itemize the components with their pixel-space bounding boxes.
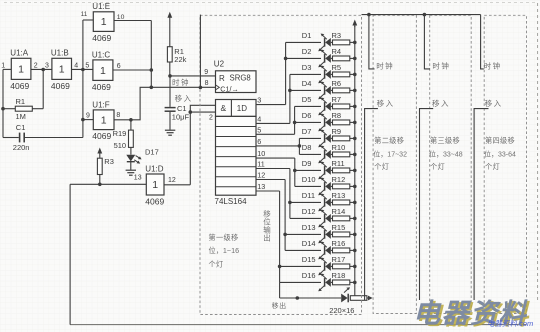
inverter U1:E: [92, 2, 114, 43]
junction D2 row: [284, 57, 288, 61]
svg-text:第一级移: 第一级移: [209, 233, 239, 242]
svg-text:U1:E: U1:E: [92, 2, 110, 11]
figure top border: [4, 2, 538, 4]
junction rail D1: [353, 41, 357, 45]
ground symbol under D17: [126, 170, 136, 175]
inverter U1:A: [10, 49, 31, 91]
wire U2 pin 3 stub: [256, 104, 286, 106]
svg-text:9: 9: [86, 113, 90, 120]
svg-text:3: 3: [257, 96, 261, 105]
watermark dianqiziliao: [413, 299, 530, 330]
wire U1:F output pin 8: [114, 119, 131, 121]
LED D9: [318, 162, 332, 180]
svg-text:11: 11: [81, 11, 88, 18]
wire C1 to ground: [169, 112, 171, 130]
wire D2 row: [286, 57, 321, 59]
wire U1:E output pin 10: [114, 20, 151, 22]
wire D6 row: [295, 121, 321, 123]
wire pair vertical for D9/D10: [294, 158, 296, 186]
resistor R18: [333, 280, 350, 285]
svg-text:个灯: 个灯: [374, 162, 389, 171]
junction F input: [81, 118, 85, 122]
svg-text:个灯: 个灯: [485, 162, 500, 171]
LED D7: [318, 130, 332, 148]
stage box 4 dashed: [484, 15, 526, 313]
junction R1 left: [1, 107, 5, 111]
svg-text:C1: C1: [16, 123, 26, 132]
svg-text:R19: R19: [113, 129, 127, 138]
wire U1:D output pin 12: [164, 184, 190, 186]
wire shift-in stage2: [365, 109, 378, 300]
svg-text:时钟: 时钟: [376, 61, 394, 71]
svg-text:R3: R3: [104, 157, 114, 166]
svg-text:8: 8: [205, 80, 209, 87]
wire U1:B output to U1:C input: [72, 68, 93, 70]
U2 AND-1D cell: [216, 100, 257, 117]
wire D14 row: [285, 249, 321, 251]
resistor R5: [333, 72, 350, 77]
resistor R12: [333, 184, 350, 189]
svg-text:D7: D7: [302, 127, 312, 136]
junction rail D14: [353, 249, 357, 253]
svg-text:6: 6: [117, 63, 121, 70]
power arrow above R1 22k: [167, 12, 172, 47]
wire clock drop stage1: [199, 15, 201, 88]
LED D17: [126, 155, 141, 164]
wire R14 to rail: [350, 217, 355, 219]
wire D5 row: [295, 105, 321, 107]
svg-text:D3: D3: [302, 63, 312, 72]
wire R4 to rail: [350, 57, 355, 59]
junction rail D11: [353, 201, 357, 205]
wire U1:A input pin 1: [3, 68, 11, 70]
wire R8 to rail: [350, 121, 355, 123]
wire R15 to rail: [350, 233, 355, 235]
resistor R8: [333, 120, 350, 125]
svg-text:第四级移: 第四级移: [485, 136, 515, 145]
LED D16: [318, 274, 332, 292]
svg-text:&: &: [221, 103, 227, 113]
wire U1:F input stub pin 9: [83, 119, 93, 121]
resistor R19: [129, 130, 134, 147]
svg-text:1M: 1M: [16, 112, 26, 121]
wire U1:E input stub pin 11: [83, 19, 93, 21]
wire shift-out row: [280, 297, 341, 299]
junction clock stage2: [367, 13, 371, 17]
junction node A-out: [41, 68, 45, 72]
LED D1: [318, 34, 332, 52]
junction C-out: [150, 68, 154, 72]
figure right border: [537, 3, 539, 302]
wire U2 pin 10 stub: [256, 157, 295, 159]
svg-text:出: 出: [263, 233, 271, 243]
junction serial-in: [189, 110, 193, 114]
svg-text:R3: R3: [332, 31, 342, 40]
wire D13 row: [285, 233, 321, 235]
wire R12 to rail: [350, 185, 355, 187]
wire serial-in to U2 pin 1: [190, 105, 215, 112]
figure bottom frame line: [70, 324, 526, 326]
svg-text:1: 1: [18, 63, 24, 75]
resistor R11: [333, 168, 350, 173]
svg-text:1: 1: [101, 16, 107, 28]
svg-text:R1: R1: [16, 97, 26, 106]
wire F-out down to R19: [130, 120, 132, 130]
svg-text:D12: D12: [302, 207, 316, 216]
wire R17 to rail: [350, 265, 355, 267]
wire E-out vertical: [150, 21, 152, 88]
wire U2 pin 12 stub: [256, 179, 285, 181]
power arrow above R3: [97, 148, 102, 159]
wire shift-in stage3: [420, 109, 434, 300]
LED D14: [318, 242, 332, 260]
svg-text:22k: 22k: [174, 55, 186, 64]
svg-text:时钟: 时钟: [484, 61, 502, 71]
wire D4 row: [290, 89, 321, 91]
wire U1:A output to U1:B input: [31, 68, 52, 70]
svg-text:R8: R8: [332, 111, 342, 120]
svg-text:10: 10: [257, 149, 265, 158]
svg-text:R18: R18: [332, 271, 346, 280]
resistor R15: [333, 232, 350, 237]
svg-text:D17: D17: [145, 148, 159, 157]
LED D4: [318, 82, 332, 100]
wire MR node down to capacitor C1 10uF: [169, 76, 171, 107]
wire C1 to B-out vertical: [25, 137, 83, 139]
svg-text:220n: 220n: [13, 143, 30, 152]
resistor R16: [333, 248, 350, 253]
junction rail D7: [353, 137, 357, 141]
wire serial-in vertical: [189, 112, 191, 185]
resistor R9: [333, 136, 350, 141]
wire R19 to D17: [130, 147, 132, 154]
svg-text:D6: D6: [302, 111, 312, 120]
stage box 1 dashed: [200, 15, 362, 314]
wire clock distribution top line: [362, 14, 481, 16]
wire R18 to rail: [350, 281, 355, 283]
svg-text:4069: 4069: [92, 82, 111, 92]
resistor R6: [333, 88, 350, 93]
LED D3: [318, 66, 332, 84]
wire shift-in stage4: [474, 109, 488, 300]
svg-text:12: 12: [257, 171, 265, 180]
svg-text:1: 1: [1, 62, 5, 69]
svg-text:D16: D16: [302, 271, 316, 280]
svg-text:第三级移: 第三级移: [430, 136, 460, 145]
svg-text:R15: R15: [332, 223, 346, 232]
svg-text:SRG8: SRG8: [230, 74, 251, 83]
svg-text:R4: R4: [332, 47, 342, 56]
wire R10 to rail: [350, 153, 355, 155]
svg-text:2: 2: [34, 62, 38, 69]
junction rail D15: [353, 265, 357, 269]
resistor R10: [333, 152, 350, 157]
inverter U1:F: [92, 100, 114, 141]
wire R7 to rail: [350, 105, 355, 107]
stage box 3 dashed: [430, 15, 472, 313]
svg-text:4069: 4069: [145, 197, 164, 207]
svg-text:R9: R9: [332, 127, 342, 136]
wire pair vertical for D13/D14: [284, 180, 286, 251]
svg-text:R12: R12: [332, 175, 346, 184]
wire D1 row: [286, 41, 321, 43]
svg-text:5: 5: [257, 125, 261, 134]
svg-text:1: 1: [101, 114, 107, 126]
wire U2 pin 4 stub: [256, 122, 290, 124]
wire D11 row: [290, 201, 321, 203]
LED D15: [318, 258, 332, 276]
svg-text:4: 4: [74, 62, 78, 69]
wire F-out jog to clock net: [131, 87, 151, 120]
resistor R4: [333, 56, 350, 61]
svg-text:C1/→: C1/→: [220, 84, 238, 93]
wire D10 row: [295, 185, 321, 187]
wire D8 row: [299, 153, 321, 155]
capacitor C1 10uF: [165, 108, 176, 112]
wire R3 to rail: [350, 41, 355, 43]
stage box 2 dashed: [373, 15, 416, 313]
svg-text:个灯: 个灯: [430, 162, 445, 171]
junction rail D16: [353, 281, 357, 285]
svg-text:13: 13: [257, 182, 265, 191]
wire U2 pin 13 stub: [256, 190, 280, 192]
junction pin 6 tee: [298, 144, 302, 148]
resistor R1 22k: [167, 47, 172, 62]
wire pair vertical for D3/D4: [289, 74, 291, 123]
junction MR node: [168, 74, 172, 78]
wire R5 to rail: [350, 73, 355, 75]
wire pair vertical for D11/D12: [289, 169, 291, 219]
shift register U2 74LS164: [204, 60, 256, 206]
svg-text:R10: R10: [332, 143, 346, 152]
junction shift-out: [296, 296, 300, 300]
wire R1 to node: [32, 108, 43, 110]
wire D3 row: [290, 73, 321, 75]
svg-text:6: 6: [257, 137, 261, 146]
inverter U1:D: [145, 164, 164, 206]
svg-text:3: 3: [45, 62, 49, 69]
svg-text:R16: R16: [332, 239, 346, 248]
wire pair vertical for D7/D8: [298, 138, 300, 154]
svg-text:D10: D10: [302, 175, 316, 184]
junction clock stage3: [423, 13, 427, 17]
svg-text:1: 1: [152, 179, 158, 191]
wire D7 row: [299, 137, 321, 139]
junction rail D12: [353, 217, 357, 221]
svg-text:2: 2: [209, 114, 213, 121]
svg-text:时钟: 时钟: [432, 61, 450, 71]
svg-text:74LS164: 74LS164: [215, 197, 248, 206]
svg-text:5: 5: [85, 62, 89, 69]
svg-text:R13: R13: [332, 191, 346, 200]
svg-text:R7: R7: [332, 95, 342, 104]
svg-text:D2: D2: [302, 47, 312, 56]
LED D12: [318, 210, 332, 228]
wire pair vertical for D1/D2: [285, 42, 287, 104]
LED D10: [318, 178, 332, 196]
wire to next stage arrow: [367, 297, 369, 299]
svg-text:移入: 移入: [377, 98, 395, 108]
svg-text:位，1~16: 位，1~16: [209, 246, 240, 255]
svg-text:时钟: 时钟: [172, 77, 190, 87]
svg-text:11: 11: [257, 160, 264, 169]
resistor R1: [15, 106, 32, 111]
svg-text:D13: D13: [302, 223, 316, 232]
wire to resistor R1: [3, 108, 15, 110]
junction D6 row: [293, 121, 297, 125]
junction D11 row: [288, 201, 292, 205]
svg-text:8: 8: [116, 112, 120, 119]
wire R1 right vertical: [42, 70, 44, 109]
svg-text:D8: D8: [302, 143, 312, 152]
svg-text:4069: 4069: [92, 131, 111, 141]
wire clock drop stage2: [369, 15, 375, 69]
inverter U1:C: [92, 50, 113, 92]
wire R1 to MR node: [169, 62, 171, 76]
wire U2 pin 11 stub: [256, 168, 290, 170]
svg-text:R5: R5: [332, 63, 342, 72]
svg-text:9: 9: [204, 69, 208, 76]
wire R9 to rail: [350, 137, 355, 139]
svg-text:R11: R11: [332, 159, 345, 168]
svg-text:U2: U2: [214, 60, 225, 69]
svg-text:U1:B: U1:B: [51, 49, 69, 58]
LED D8: [318, 146, 332, 164]
svg-text:220×16: 220×16: [329, 306, 354, 315]
junction rail D9: [353, 169, 357, 173]
junction D9 row: [293, 169, 297, 173]
wire left feedback vertical: [2, 69, 4, 137]
wire U1:C output pin 6: [113, 69, 151, 71]
junction F-out: [129, 118, 133, 122]
svg-text:U1:D: U1:D: [145, 164, 163, 173]
resistor R3: [97, 158, 102, 174]
wire U1:D input pin 13: [70, 183, 146, 185]
LED D13: [318, 226, 332, 244]
svg-text:D1: D1: [302, 31, 312, 40]
svg-text:移入: 移入: [175, 93, 193, 103]
svg-text:移入: 移入: [485, 98, 503, 108]
svg-text:第二级移: 第二级移: [374, 136, 404, 145]
junction rail D3: [353, 73, 357, 77]
svg-text:4069: 4069: [92, 33, 111, 43]
LED D2: [318, 50, 332, 68]
junction clock drop: [199, 86, 203, 90]
svg-text:移出: 移出: [272, 301, 287, 310]
U2 stage stack: [216, 116, 257, 195]
junction rail D2: [353, 57, 357, 61]
svg-text:U1:A: U1:A: [10, 49, 28, 58]
wire R11 to rail: [350, 169, 355, 171]
wire LED supply rail: [354, 26, 356, 296]
wire R3 to pin13 wire: [99, 175, 101, 185]
wire feedback loop left vertical: [69, 184, 71, 324]
svg-text:D15: D15: [302, 255, 316, 264]
svg-text:1D: 1D: [237, 104, 247, 113]
junction rail D6: [353, 121, 357, 125]
wire clock net to U2 pin 8: [151, 86, 215, 88]
resistor R3: [333, 40, 350, 45]
junction D4 row: [288, 89, 292, 93]
resistor R7: [333, 104, 350, 109]
inverter U1:B: [51, 49, 72, 91]
junction node B-out: [81, 68, 85, 72]
svg-text:4069: 4069: [10, 81, 29, 91]
wire C1 row: [3, 137, 19, 139]
wire MR node to U2 pin 9: [170, 75, 216, 77]
LED D11: [318, 194, 332, 212]
svg-text:10μF: 10μF: [172, 113, 190, 122]
svg-text:4069: 4069: [51, 81, 70, 91]
svg-text:位，33~48: 位，33~48: [429, 150, 463, 159]
resistor R13: [333, 200, 350, 205]
wire R6 to rail: [350, 89, 355, 91]
wire shift-out from pin13 vertical: [279, 282, 281, 298]
wire B-out vertical bus: [82, 20, 84, 138]
diode shift-out: [341, 287, 350, 302]
capacitor C1 220n: [20, 133, 25, 143]
LED D5: [318, 98, 332, 116]
wire D17 to ground: [130, 162, 132, 170]
wire clock drop stage4: [481, 15, 484, 69]
junction rail D8: [353, 153, 357, 157]
junction rail D10: [353, 185, 357, 189]
svg-text:12: 12: [168, 177, 176, 184]
svg-text:1: 1: [59, 63, 65, 75]
power arrow LED supply rail: [352, 20, 357, 28]
wire serial-in to U2 pin 2: [190, 111, 215, 113]
wire D16 row: [280, 281, 321, 283]
svg-text:13: 13: [134, 175, 142, 182]
junction rail D4: [353, 89, 357, 93]
svg-text:R14: R14: [332, 207, 346, 216]
junction D15 row: [278, 265, 282, 269]
resistor R17: [333, 264, 350, 269]
svg-text:位，17~32: 位，17~32: [373, 150, 407, 159]
svg-text:R6: R6: [332, 79, 342, 88]
wire D12 row: [290, 217, 321, 219]
svg-text:电器资料.com: 电器资料.com: [487, 319, 533, 328]
junction rail D5: [353, 105, 357, 109]
wire pair vertical for D5/D6: [294, 106, 296, 134]
wire clock drop stage3: [424, 15, 430, 69]
resistor R14: [333, 216, 350, 221]
svg-text:D5: D5: [302, 95, 312, 104]
wire D9 row: [295, 169, 321, 171]
wire pair vertical for D15/D16: [279, 191, 281, 282]
svg-text:R: R: [219, 74, 225, 83]
wire U2 pin 5 stub: [256, 133, 295, 135]
svg-text:位，33-64: 位，33-64: [484, 150, 516, 159]
svg-text:10: 10: [117, 14, 125, 21]
junction D13 row: [283, 233, 287, 237]
wire U2 pin 6 stub: [256, 145, 299, 147]
svg-text:R17: R17: [332, 255, 346, 264]
svg-text:D4: D4: [302, 79, 312, 88]
junction R3 bottom: [98, 183, 102, 187]
junction rail D13: [353, 233, 357, 237]
wire D15 row: [280, 265, 321, 267]
junction clock node: [150, 86, 154, 90]
svg-text:1: 1: [100, 65, 106, 77]
svg-text:移入: 移入: [432, 98, 450, 108]
svg-text:U1:C: U1:C: [92, 50, 110, 59]
svg-text:510: 510: [114, 141, 127, 150]
svg-text:个灯: 个灯: [209, 259, 224, 268]
svg-text:U1:F: U1:F: [92, 100, 109, 109]
LED D6: [318, 114, 332, 132]
svg-text:D14: D14: [302, 239, 316, 248]
